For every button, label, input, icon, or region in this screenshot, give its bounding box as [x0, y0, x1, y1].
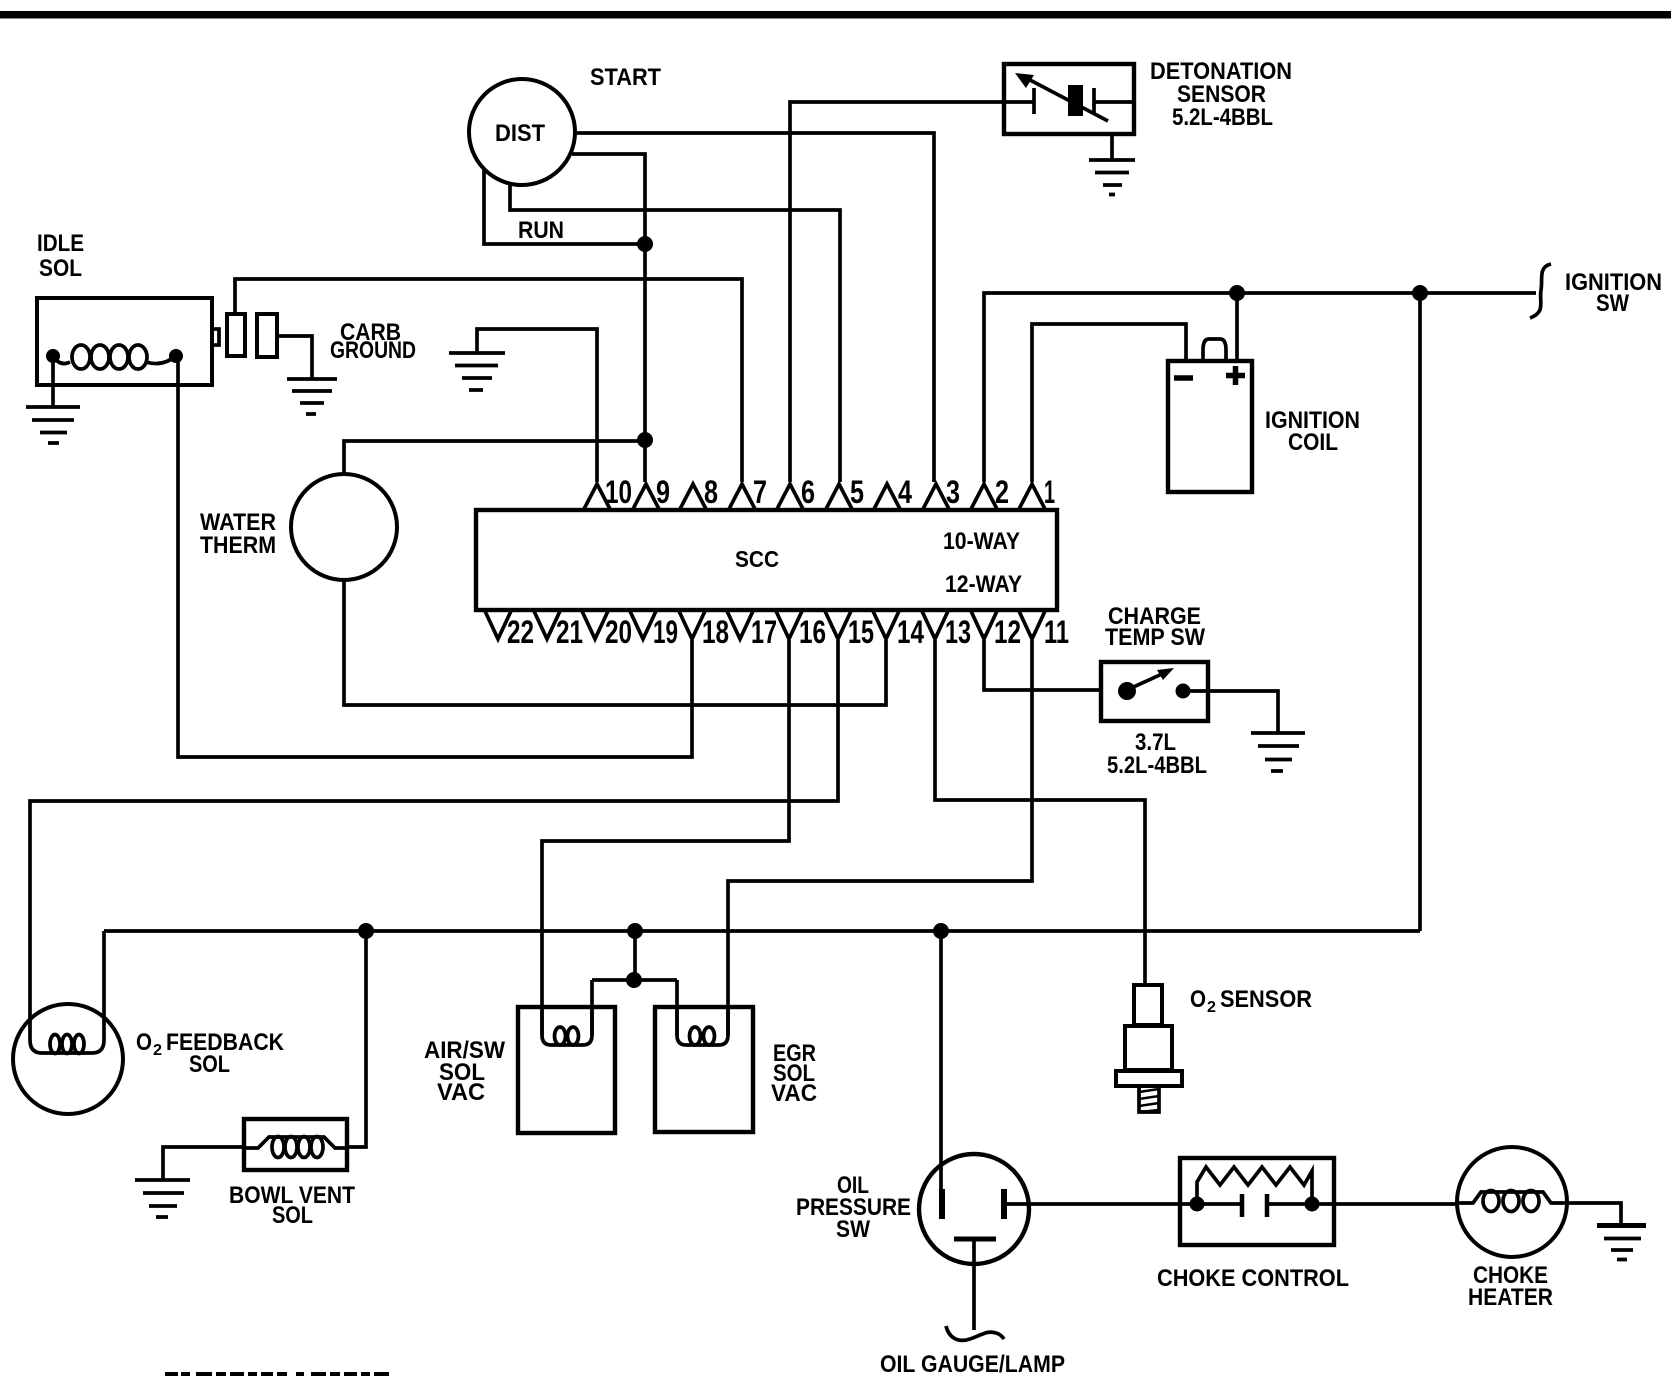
junction dot run branch — [637, 236, 653, 252]
svg-text:12: 12 — [994, 614, 1021, 650]
svg-text:CHOKE CONTROL: CHOKE CONTROL — [1157, 1265, 1349, 1292]
wire SCC pin 7 to idle solenoid connector — [235, 279, 742, 482]
svg-text:22: 22 — [507, 614, 534, 650]
svg-text:START: START — [590, 64, 661, 91]
wire SCC pin 2 to ignition switch — [984, 293, 1536, 482]
wire oil pressure switch to choke control — [1004, 1202, 1197, 1206]
svg-text:9: 9 — [656, 474, 670, 510]
wire charge temp switch to ground — [1183, 691, 1278, 733]
svg-text:IDLE: IDLE — [37, 230, 84, 257]
wire air-sw sol right lead — [590, 980, 594, 1035]
pin 13 — [922, 610, 972, 650]
carb ground connector wire — [277, 336, 312, 379]
ground carb connector — [287, 379, 337, 414]
wire bottom power rail — [104, 929, 1420, 933]
junction dot solenoid pair split — [626, 972, 642, 988]
wire SCC pin 10 to carb ground — [477, 329, 597, 482]
svg-text:3: 3 — [946, 474, 960, 510]
svg-text:SOL: SOL — [272, 1202, 313, 1229]
wire ignition coil positive lead — [1235, 293, 1239, 361]
idle solenoid IDLE SOL — [37, 230, 277, 385]
pin 20 — [582, 610, 633, 650]
air switching solenoid vacuum — [424, 1007, 615, 1133]
svg-text:5.2L-4BBL: 5.2L-4BBL — [1107, 752, 1207, 779]
pin 21 — [534, 610, 584, 650]
pin 11 — [1019, 610, 1070, 650]
svg-text:7: 7 — [753, 474, 767, 510]
svg-text:8: 8 — [704, 474, 718, 510]
wire SCC pin 18 to idle solenoid — [178, 356, 692, 757]
svg-text:21: 21 — [556, 614, 583, 650]
wire rail drop to bowl vent sol — [347, 931, 366, 1147]
svg-text:20: 20 — [605, 614, 632, 650]
ground choke heater — [1597, 1226, 1646, 1260]
svg-text:14: 14 — [897, 614, 924, 650]
svg-text:SW: SW — [1596, 290, 1629, 317]
choke heater — [1457, 1147, 1567, 1311]
wire water therm to pin 9 branch — [344, 441, 645, 474]
junction dot ignition switch feed tap — [1412, 285, 1428, 301]
ground bowl vent sol — [135, 1180, 190, 1217]
svg-text:11: 11 — [1044, 614, 1069, 650]
svg-text:VAC: VAC — [437, 1079, 485, 1106]
svg-text:10-WAY: 10-WAY — [943, 528, 1020, 555]
ground charge temp switch — [1251, 733, 1305, 771]
junction dot rail oil pressure tap — [933, 923, 949, 939]
pin 1 — [1019, 474, 1056, 510]
bowl vent solenoid — [229, 1119, 355, 1229]
svg-text:SOL: SOL — [39, 255, 82, 282]
pin 4 — [874, 474, 913, 510]
wire SCC pin 12 to charge temp switch — [984, 640, 1101, 690]
wire choke control to choke heater — [1312, 1202, 1457, 1206]
pin 10 — [584, 474, 633, 510]
wire SCC pin 13 to O2 sensor — [935, 640, 1145, 985]
svg-text:RUN: RUN — [518, 217, 564, 244]
pin 5 — [826, 474, 865, 510]
O2 feedback solenoid — [13, 1004, 285, 1114]
junction dot rail bowl vent tap — [358, 923, 374, 939]
pin 3 — [923, 474, 961, 510]
wire SCC pin 11 to EGR solenoid — [728, 640, 1032, 1035]
svg-text:13: 13 — [945, 614, 971, 650]
pin 18 — [679, 610, 730, 650]
water thermostat switch — [200, 474, 397, 580]
svg-text:O: O — [1190, 986, 1206, 1013]
pin 12 — [971, 610, 1022, 650]
pin 2 — [971, 474, 1010, 510]
svg-text:2: 2 — [153, 1042, 162, 1059]
wire SCC pin 1 to ignition coil negative — [1032, 324, 1186, 482]
svg-text:6: 6 — [801, 474, 815, 510]
wire EGR sol left lead — [675, 980, 679, 1035]
svg-text:SENSOR: SENSOR — [1220, 986, 1312, 1013]
ground carb pin 10 — [449, 353, 505, 390]
wire SCC pin 15 to O2 feedback sol left lead — [30, 640, 838, 1053]
svg-text:COIL: COIL — [1288, 429, 1338, 456]
svg-text:SW: SW — [836, 1216, 870, 1243]
bottom cropped text fragment — [165, 1372, 389, 1376]
wire bowl vent sol to ground — [163, 1147, 244, 1180]
svg-text:2: 2 — [995, 474, 1009, 510]
svg-text:DIST: DIST — [495, 120, 545, 147]
wire SCC pin 14 to water therm — [344, 580, 886, 705]
choke control — [1157, 1158, 1349, 1292]
svg-text:THERM: THERM — [200, 532, 276, 559]
svg-text:4: 4 — [898, 474, 912, 510]
wire rail drop to solenoid pair junction — [633, 931, 637, 980]
wire SCC pin 6 to detonation sensor — [790, 102, 1004, 482]
wire rail drop to oil pressure switch — [939, 931, 943, 1191]
pin 22 — [485, 610, 535, 650]
wire DIST to SCC pin 9 — [572, 154, 645, 482]
ground idle solenoid — [26, 356, 80, 443]
pin 9 — [633, 474, 671, 510]
pin 7 — [729, 474, 768, 510]
O2 sensor — [1116, 985, 1312, 1112]
svg-text:VAC: VAC — [771, 1080, 817, 1107]
wire DIST to SCC pin 3 — [576, 133, 934, 482]
wire ignition switch feed to bottom rail — [1418, 293, 1422, 931]
svg-text:GROUND: GROUND — [330, 337, 416, 364]
pin 17 — [727, 610, 778, 650]
svg-text:5.2L-4BBL: 5.2L-4BBL — [1172, 104, 1273, 131]
svg-text:15: 15 — [848, 614, 874, 650]
svg-text:16: 16 — [799, 614, 826, 650]
svg-text:SOL: SOL — [189, 1051, 230, 1078]
wire solenoid pair bridge — [592, 978, 677, 982]
wire SCC pin 16 to air-sw solenoid — [542, 640, 789, 1035]
svg-text:1: 1 — [1044, 474, 1055, 510]
junction dot rail solenoid pair tap — [627, 923, 643, 939]
distributor DIST — [469, 79, 575, 185]
charge temperature switch — [1101, 603, 1208, 779]
pin 15 — [825, 610, 875, 650]
wire choke heater to ground — [1567, 1203, 1621, 1225]
svg-text:2: 2 — [1207, 999, 1216, 1016]
oil pressure switch — [796, 1154, 1029, 1340]
wire rail to O2 feedback sol right lead — [92, 931, 104, 1053]
pin 6 — [777, 474, 816, 510]
wire DIST run to SCC pin 5 — [510, 184, 840, 482]
junction dot ignition coil tap — [1229, 285, 1245, 301]
svg-text:HEATER: HEATER — [1468, 1284, 1553, 1311]
svg-text:OIL GAUGE/LAMP: OIL GAUGE/LAMP — [880, 1351, 1065, 1376]
EGR solenoid vacuum — [655, 1007, 817, 1132]
node CARB GROUND label — [330, 319, 416, 364]
top border bar — [0, 11, 1671, 19]
svg-text:17: 17 — [751, 614, 777, 650]
detonation sensor — [1004, 58, 1292, 134]
node IGNITION SW — [1530, 264, 1662, 318]
svg-text:19: 19 — [653, 614, 678, 650]
svg-text:10: 10 — [605, 474, 632, 510]
ignition coil — [1168, 339, 1360, 492]
pin 16 — [776, 610, 827, 650]
pin 8 — [680, 474, 719, 510]
svg-text:SCC: SCC — [735, 546, 779, 572]
pin 14 — [873, 610, 925, 650]
svg-text:5: 5 — [850, 474, 864, 510]
wire DIST run lower branch — [484, 169, 645, 244]
svg-text:O: O — [136, 1029, 152, 1056]
ground detonation sensor — [1089, 134, 1135, 195]
spark control computer SCC — [476, 510, 1057, 610]
svg-text:12-WAY: 12-WAY — [945, 571, 1022, 598]
svg-text:TEMP SW: TEMP SW — [1105, 624, 1205, 651]
svg-text:18: 18 — [702, 614, 729, 650]
junction dot water therm tap — [637, 432, 653, 448]
pin 19 — [630, 610, 679, 650]
